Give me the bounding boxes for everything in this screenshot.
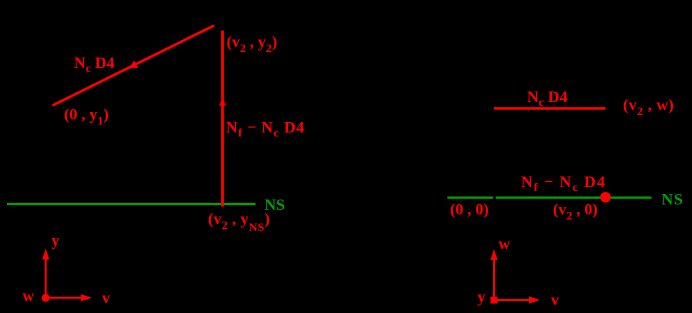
wire: vertical Nf−Nc D4 brane (left diagram) <box>221 31 224 207</box>
svg-text:(v2 , yNS): (v2 , yNS) <box>208 211 270 234</box>
wire: slanted Nc D4 brane (left diagram) <box>53 26 215 106</box>
NS fivebrane (right diagram, green segment 2) <box>496 197 652 199</box>
svg-text:Nf − Nc D4: Nf − Nc D4 <box>226 120 305 140</box>
svg-text:(v2 , w): (v2 , w) <box>623 97 674 118</box>
svg-text:v: v <box>102 290 110 307</box>
right axes: v axis (right arrow) <box>494 296 540 303</box>
svg-text:NS: NS <box>662 192 684 209</box>
right axes: origin square <box>491 297 498 304</box>
svg-text:w: w <box>499 236 511 253</box>
svg-text:y: y <box>52 233 60 250</box>
svg-text:y: y <box>478 289 486 306</box>
red Nc D4 brane (right diagram) <box>494 107 606 110</box>
NS fivebrane (left diagram, green line) <box>7 203 256 205</box>
svg-text:(v2 , 0): (v2 , 0) <box>553 202 598 223</box>
left axes: origin dot <box>42 294 50 302</box>
right axes: w axis (up arrow) <box>490 249 497 300</box>
left axes: v axis (right arrow) <box>46 294 92 301</box>
left axes: y axis (up arrow) <box>42 249 49 298</box>
svg-text:Nf − Nc D4: Nf − Nc D4 <box>521 174 606 194</box>
svg-text:Nc D4: Nc D4 <box>527 89 567 109</box>
NS fivebrane (right diagram, green segment 1) <box>447 197 493 199</box>
red dot: end of Nf−Nc D4 branes on NS <box>600 192 611 203</box>
svg-text:(0 , y1): (0 , y1) <box>64 107 109 128</box>
svg-text:Nc D4: Nc D4 <box>74 55 114 75</box>
svg-text:(0 , 0): (0 , 0) <box>450 202 489 219</box>
arrow on slanted Nc D4 brane <box>129 61 138 69</box>
svg-text:w: w <box>23 288 35 305</box>
svg-text:(v2 , y2): (v2 , y2) <box>227 34 278 55</box>
arrow on vertical Nf−Nc D4 brane <box>219 98 226 106</box>
svg-text:v: v <box>551 292 559 309</box>
